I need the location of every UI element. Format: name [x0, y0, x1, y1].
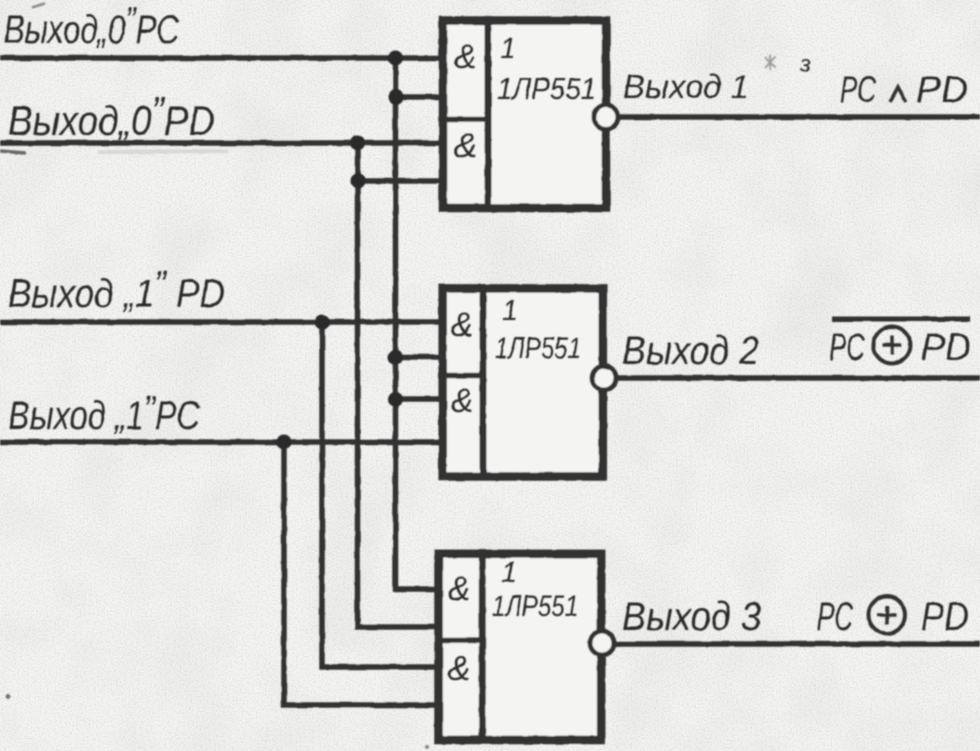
svg-text:&: & — [451, 306, 474, 344]
svg-text:1ЛР551: 1ЛР551 — [497, 71, 596, 106]
svg-text:&: & — [448, 570, 471, 608]
svg-text:з: з — [799, 51, 811, 78]
svg-text:1: 1 — [500, 33, 516, 65]
svg-text:Выход„0”РD: Выход„0”РD — [8, 88, 215, 144]
svg-text:РD: РD — [921, 327, 971, 369]
svg-text:Выход „1”РС: Выход „1”РС — [8, 388, 201, 438]
svg-text:Выход„0”РС: Выход„0”РС — [4, 0, 180, 52]
svg-text:1: 1 — [502, 295, 518, 327]
svg-text:РС: РС — [829, 327, 865, 369]
svg-text:РС: РС — [840, 69, 876, 110]
svg-text:1: 1 — [501, 557, 517, 589]
svg-text:&: & — [454, 127, 477, 165]
svg-text:Выход 3: Выход 3 — [622, 595, 761, 639]
svg-text:РD: РD — [921, 595, 969, 639]
svg-text:РD: РD — [916, 69, 968, 110]
svg-text:1ЛР551: 1ЛР551 — [492, 590, 578, 623]
svg-text:&: & — [454, 38, 477, 76]
svg-text:1ЛР551: 1ЛР551 — [495, 332, 581, 365]
svg-text:Выход 1: Выход 1 — [623, 68, 749, 105]
svg-text:РС: РС — [817, 595, 854, 639]
svg-text:&: & — [451, 382, 474, 420]
svg-text:&: & — [448, 650, 471, 688]
svg-text:Выход 2: Выход 2 — [622, 329, 759, 373]
